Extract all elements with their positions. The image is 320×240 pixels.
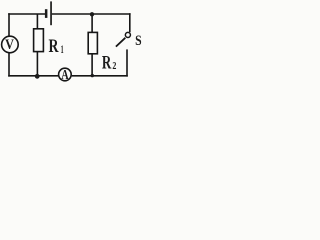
- wire bottom rail left segment: [8, 75, 58, 77]
- wire R1 branch bottom: [36, 52, 38, 76]
- switch S blade: [116, 38, 125, 47]
- wire right rail: [129, 13, 131, 32]
- ammeter A1 circle: [59, 68, 72, 81]
- svg-text:R: R: [102, 54, 112, 74]
- svg-text:S: S: [135, 33, 142, 49]
- wire top rail right segment: [52, 13, 131, 15]
- switch S contact circle: [125, 32, 130, 37]
- wire left rail upper: [8, 13, 10, 36]
- svg-text:1: 1: [61, 42, 64, 56]
- svg-text:2: 2: [112, 60, 116, 72]
- svg-text:A: A: [61, 68, 69, 83]
- svg-text:R: R: [49, 36, 59, 57]
- battery cell long plate: [50, 1, 52, 25]
- wire R2 branch top: [91, 14, 93, 32]
- wire top rail left segment: [8, 13, 45, 15]
- wire switch bottom lead: [126, 49, 128, 76]
- junction dot top (R2 tap): [90, 12, 94, 16]
- voltmeter V1 circle: [2, 36, 19, 53]
- junction dot bottom left (R1 tap): [35, 74, 40, 79]
- wire left rail lower: [8, 53, 10, 77]
- svg-text:V: V: [5, 37, 14, 53]
- resistor R2 box: [88, 32, 97, 53]
- wire bottom rail right segment: [72, 75, 128, 77]
- wire R1 branch top: [36, 14, 38, 29]
- resistor R1 box: [34, 29, 44, 52]
- junction dot bottom right (R2 tap): [91, 74, 94, 77]
- wire R2 branch bottom: [91, 54, 93, 76]
- battery cell short plate: [45, 9, 48, 18]
